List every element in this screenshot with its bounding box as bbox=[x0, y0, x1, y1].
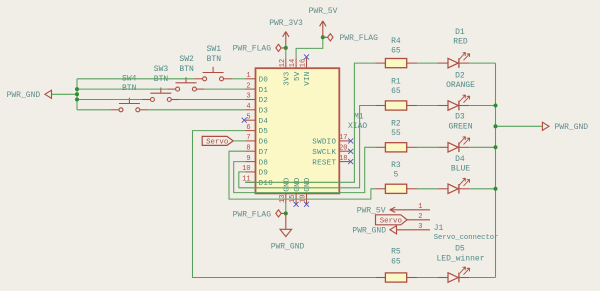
switch SW4 BTN bbox=[111, 98, 149, 112]
svg-text:BTN: BTN bbox=[179, 65, 194, 74]
IC pin 13 GND (bottom) bbox=[285, 193, 287, 203]
IC pin 3 D2 (left) bbox=[245, 99, 255, 101]
svg-text:6: 6 bbox=[246, 124, 250, 132]
wire LED cathode D1 to right bus bbox=[469, 62, 495, 64]
resistor R5 65 bbox=[375, 273, 417, 282]
LED D3 GREEN bbox=[438, 137, 470, 152]
IC pin 15 GND (bottom) bbox=[295, 193, 297, 203]
wire D2 net: bus to SW3 left bbox=[77, 99, 142, 101]
svg-text:SWDIO: SWDIO bbox=[312, 139, 336, 147]
power flag PWR_FLAG (bottom, on GND) bbox=[276, 210, 286, 217]
no-connect X on pin 17 SWDIO bbox=[348, 138, 353, 143]
svg-text:3V3: 3V3 bbox=[283, 71, 291, 86]
IC pin 8 D7 (left) bbox=[245, 150, 255, 152]
wire D9 net: pin 10 under IC to R1 bbox=[239, 106, 375, 188]
svg-text:SW2: SW2 bbox=[179, 55, 194, 64]
IC pin 18 RESET (right) bbox=[339, 161, 349, 163]
power symbol PWR_5V (arrow up) bbox=[320, 21, 326, 37]
IC pin 5 D4 (left) bbox=[245, 119, 255, 121]
IC pin 17 SWDIO (right) bbox=[339, 140, 349, 142]
svg-text:BTN: BTN bbox=[207, 55, 222, 64]
wire D8 net: pin 9 under IC to R2 bbox=[234, 147, 376, 192]
svg-text:65: 65 bbox=[391, 87, 401, 96]
hierarchical label Servo (at IC pin 7 D6) bbox=[202, 136, 233, 145]
wire D2 net: SW3 right to pin 3 bbox=[180, 99, 246, 101]
svg-text:GND: GND bbox=[294, 177, 302, 192]
junction bus/D2 bbox=[75, 98, 79, 102]
svg-text:PWR_FLAG: PWR_FLAG bbox=[340, 34, 379, 43]
svg-text:R3: R3 bbox=[391, 161, 401, 170]
switch SW2 BTN bbox=[167, 77, 205, 91]
svg-text:D7: D7 bbox=[259, 149, 269, 157]
no-connect X on pin 16 VIN bbox=[304, 54, 309, 59]
LED D1 RED bbox=[438, 53, 470, 68]
resistor R4 65 bbox=[375, 59, 417, 68]
svg-text:3: 3 bbox=[246, 93, 250, 101]
svg-text:D6: D6 bbox=[259, 139, 269, 147]
svg-text:PWR_3V3: PWR_3V3 bbox=[269, 19, 303, 28]
IC pin 12 3V3 (top) bbox=[285, 58, 287, 68]
LED D2 ORANGE bbox=[438, 95, 470, 110]
svg-text:Servo: Servo bbox=[380, 218, 402, 226]
svg-text:2: 2 bbox=[418, 213, 422, 221]
power symbol PWR_GND (left) bbox=[45, 90, 52, 98]
wire LED cathode D2 to right bus bbox=[469, 105, 495, 107]
svg-text:SW1: SW1 bbox=[207, 45, 222, 54]
power symbol PWR_GND (right) bbox=[542, 122, 549, 130]
svg-text:65: 65 bbox=[391, 257, 401, 266]
power symbol PWR_5V (left arrow at J1 pin 1) bbox=[390, 207, 395, 212]
svg-text:GREEN: GREEN bbox=[448, 122, 472, 131]
wire R1 to LED D2 anode bbox=[417, 105, 438, 107]
svg-text:RESET: RESET bbox=[312, 159, 336, 167]
junction right bus/D4 row bbox=[494, 187, 498, 191]
resistor R1 65 bbox=[375, 101, 417, 110]
resistor R2 55 bbox=[375, 143, 417, 152]
wire D10 net: pin 11 across IC to R4 bbox=[245, 63, 375, 182]
wire LED cathode D5 to right bus bbox=[469, 277, 495, 279]
svg-text:ORANGE: ORANGE bbox=[446, 81, 475, 90]
svg-text:BTN: BTN bbox=[154, 75, 169, 84]
junction 3V3/PWR_FLAG bbox=[284, 46, 288, 50]
svg-text:1: 1 bbox=[418, 203, 422, 211]
power symbol PWR_GND (bottom, triangle down) bbox=[280, 213, 292, 236]
svg-text:Servo: Servo bbox=[206, 139, 228, 147]
svg-text:7: 7 bbox=[246, 134, 250, 142]
svg-text:J1: J1 bbox=[434, 224, 444, 233]
no-connect X on bottom GND pin 19 bbox=[304, 202, 309, 207]
svg-text:D4: D4 bbox=[259, 118, 269, 126]
junction right bus/D3 row bbox=[494, 145, 498, 149]
svg-text:1: 1 bbox=[246, 72, 250, 80]
wire GND pin 13 down to ground bbox=[285, 204, 287, 214]
IC pin 19 GND (bottom) bbox=[306, 193, 308, 203]
svg-text:D10: D10 bbox=[259, 180, 274, 188]
svg-text:Servo_connector: Servo_connector bbox=[434, 234, 499, 242]
IC pin 7 D6 (left) bbox=[245, 140, 255, 142]
wire right bus to PWR_GND label bbox=[496, 125, 543, 127]
LED D4 BLUE bbox=[438, 178, 470, 193]
LED D5 LED_winner bbox=[438, 267, 470, 282]
svg-text:R5: R5 bbox=[391, 248, 401, 257]
svg-text:XIAO: XIAO bbox=[348, 122, 367, 131]
svg-text:D3: D3 bbox=[259, 108, 269, 116]
wire 5V junction to pin 14 bbox=[296, 37, 323, 58]
svg-text:D5: D5 bbox=[259, 128, 269, 136]
resistor R3 5 bbox=[375, 184, 417, 193]
hierarchical label Servo (at J1 pin 2) bbox=[376, 215, 408, 225]
svg-text:5V: 5V bbox=[294, 71, 302, 81]
svg-text:20: 20 bbox=[339, 144, 347, 152]
junction right bus/D2 row bbox=[494, 104, 498, 108]
IC pin 16 VIN (top) bbox=[306, 58, 308, 68]
svg-text:D1: D1 bbox=[455, 28, 465, 37]
no-connect X on pin 20 SWCLK bbox=[348, 149, 353, 154]
IC pin 14 5V (top) bbox=[295, 58, 297, 68]
IC pin 1 D0 (left) bbox=[245, 78, 255, 80]
IC pin 9 D8 (left) bbox=[245, 161, 255, 163]
svg-text:R4: R4 bbox=[391, 37, 401, 46]
svg-text:R1: R1 bbox=[391, 77, 401, 86]
svg-text:GND: GND bbox=[283, 177, 291, 192]
svg-text:D4: D4 bbox=[455, 155, 465, 164]
svg-text:RED: RED bbox=[453, 38, 468, 47]
svg-text:16: 16 bbox=[300, 59, 308, 67]
wire D3 net: bus to SW4 left bbox=[77, 109, 111, 111]
svg-text:GND: GND bbox=[304, 177, 312, 192]
wire D3 net: SW4 right to pin 4 bbox=[148, 109, 245, 111]
svg-text:9: 9 bbox=[246, 155, 250, 163]
svg-text:D8: D8 bbox=[259, 159, 269, 167]
svg-text:D1: D1 bbox=[259, 87, 269, 95]
svg-text:D3: D3 bbox=[455, 113, 465, 122]
wire LED cathode D4 to right bus bbox=[469, 188, 495, 190]
wire D0 net: bus to SW1 left bbox=[77, 78, 194, 80]
svg-text:65: 65 bbox=[391, 47, 401, 56]
svg-text:PWR_FLAG: PWR_FLAG bbox=[233, 210, 272, 219]
power flag PWR_FLAG (top left, on 3V3) bbox=[276, 44, 286, 51]
svg-text:D0: D0 bbox=[259, 77, 269, 85]
switch SW3 BTN bbox=[142, 88, 180, 102]
wire R4 to LED D1 anode bbox=[417, 62, 438, 64]
svg-text:M1: M1 bbox=[354, 113, 364, 122]
svg-text:SWCLK: SWCLK bbox=[312, 149, 336, 157]
svg-text:5: 5 bbox=[246, 113, 250, 121]
wire D1 net: SW2 right to pin 2 bbox=[205, 88, 245, 90]
wire R3 to LED D4 anode bbox=[417, 188, 438, 190]
wire R2 to LED D3 anode bbox=[417, 146, 438, 148]
IC pin 6 D5 (left) bbox=[245, 130, 255, 132]
power flag PWR_FLAG (top right, on 5V) bbox=[323, 34, 333, 41]
junction 5V/PWR_FLAG bbox=[321, 35, 325, 39]
svg-text:PWR_GND: PWR_GND bbox=[555, 123, 589, 132]
wire left GND bus vertical bbox=[76, 79, 78, 110]
svg-text:SW3: SW3 bbox=[154, 65, 169, 74]
svg-text:PWR_FLAG: PWR_FLAG bbox=[233, 45, 272, 54]
connector J1 pin 1 line bbox=[390, 209, 430, 211]
svg-text:55: 55 bbox=[391, 129, 401, 138]
svg-text:BLUE: BLUE bbox=[451, 165, 470, 174]
svg-text:14: 14 bbox=[289, 59, 297, 67]
junction bus/D1 bbox=[75, 87, 79, 91]
svg-text:5: 5 bbox=[393, 171, 398, 180]
IC M1 XIAO body bbox=[256, 68, 340, 193]
wire D7 net: pin 8 under IC to R3 bbox=[229, 151, 375, 199]
svg-text:PWR_GND: PWR_GND bbox=[271, 242, 305, 251]
wire R5 to LED D5 anode bbox=[417, 277, 438, 279]
power symbol PWR_3V3 (arrow up) bbox=[283, 32, 289, 48]
connector J1 pin 2 line bbox=[407, 219, 430, 221]
IC pin 20 SWCLK (right) bbox=[339, 150, 349, 152]
wire 3V3 junction to pin 12 bbox=[285, 48, 287, 58]
junction right bus/PWR_GND tap bbox=[494, 124, 498, 128]
wire right GND bus vertical bbox=[495, 63, 497, 277]
svg-text:D5: D5 bbox=[455, 245, 465, 254]
wire PWR_GND stub to bus bbox=[52, 93, 77, 95]
connector J1 pin 3 line bbox=[397, 229, 431, 231]
wire Servo label to pin 7 bbox=[233, 140, 245, 142]
no-connect X on pin 5 D4 bbox=[242, 118, 247, 123]
svg-text:4: 4 bbox=[246, 103, 250, 111]
svg-text:R2: R2 bbox=[391, 119, 401, 128]
svg-text:8: 8 bbox=[246, 144, 250, 152]
junction GND/PWR_FLAG (bottom) bbox=[284, 211, 288, 215]
wire LED cathode D3 to right bus bbox=[469, 146, 495, 148]
power symbol PWR_GND (left triangle at J1 pin 3) bbox=[390, 226, 397, 234]
svg-text:17: 17 bbox=[339, 134, 347, 142]
switch SW1 BTN bbox=[194, 67, 232, 81]
svg-text:VIN: VIN bbox=[304, 71, 312, 85]
no-connect X on pin 18 RESET bbox=[348, 159, 353, 164]
IC pin 4 D3 (left) bbox=[245, 109, 255, 111]
wire D1 net: bus to SW2 left bbox=[77, 88, 167, 90]
wire D0 net: SW1 right to pin 1 bbox=[232, 78, 245, 80]
IC pin 11 D10 (left) bbox=[245, 181, 255, 183]
IC pin 10 D9 (left) bbox=[245, 171, 255, 173]
svg-text:12: 12 bbox=[279, 59, 287, 67]
svg-text:PWR_GND: PWR_GND bbox=[7, 91, 41, 100]
wire D5 net: pin 6 to R5 (long left/bottom route) bbox=[193, 131, 376, 278]
svg-text:D9: D9 bbox=[259, 170, 269, 178]
svg-text:LED_winner: LED_winner bbox=[436, 254, 484, 263]
junction bus/PWR_GND bbox=[75, 92, 79, 96]
svg-text:3: 3 bbox=[418, 223, 422, 231]
IC pin 2 D1 (left) bbox=[245, 88, 255, 90]
svg-text:PWR_5V: PWR_5V bbox=[309, 7, 338, 16]
svg-text:D2: D2 bbox=[259, 97, 269, 105]
svg-text:D2: D2 bbox=[455, 71, 465, 80]
svg-text:18: 18 bbox=[339, 155, 347, 163]
no-connect X on bottom GND pin 15 bbox=[294, 202, 299, 207]
svg-text:PWR_GND: PWR_GND bbox=[352, 227, 386, 236]
svg-text:2: 2 bbox=[246, 82, 250, 90]
